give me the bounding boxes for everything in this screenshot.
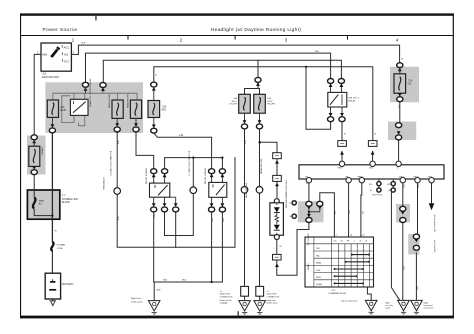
svg-text:Power Source: Power Source bbox=[43, 27, 78, 33]
wire J5 circle up bbox=[192, 158, 194, 188]
relay DRL No.3 top connector a bbox=[209, 169, 215, 174]
ground T1 left rear bbox=[365, 300, 377, 313]
border frame bottom bbox=[20, 316, 454, 319]
svg-text:FLASH: FLASH bbox=[316, 283, 323, 286]
wire coil line bbox=[165, 158, 223, 169]
svg-text:C6: C6 bbox=[289, 216, 291, 218]
junction connector circle B4 LH bbox=[241, 187, 248, 194]
svg-text:GND1: GND1 bbox=[399, 177, 404, 179]
table terminal ticks bbox=[334, 235, 367, 290]
body ECU side circles bbox=[292, 201, 296, 205]
svg-text:18: 18 bbox=[363, 235, 365, 237]
svg-text:W-B: W-B bbox=[156, 289, 161, 291]
wire relay2 out2 bbox=[221, 212, 223, 282]
svg-text:Right: Right bbox=[385, 301, 390, 304]
AM1 connector bottom bbox=[31, 170, 37, 175]
relay DRL No.2 top arrow a bbox=[329, 83, 333, 87]
svg-text:CONNECTOR: CONNECTOR bbox=[266, 296, 279, 298]
wire ground bus drop T1 bbox=[153, 282, 155, 301]
DRL fuse top arrow bbox=[152, 87, 156, 91]
IG fuse bottom arrow bbox=[398, 93, 402, 97]
wire head fuse split bbox=[245, 83, 259, 94]
headlight control relay bbox=[70, 78, 91, 116]
fuse 40A MAIN bbox=[47, 100, 66, 117]
GND2 connector circle a bbox=[413, 234, 419, 239]
wire main battery line bbox=[51, 133, 53, 242]
combination switch table bbox=[305, 237, 374, 287]
wire HEAD to table bbox=[360, 183, 363, 237]
svg-text:LOW: LOW bbox=[316, 270, 321, 272]
svg-text:Right: Right bbox=[424, 301, 429, 304]
wire battery to ground bbox=[52, 299, 54, 301]
relay DRL No.4 top arrow b bbox=[163, 174, 167, 178]
svg-text:HEAD: HEAD bbox=[316, 262, 322, 265]
fuse 10A HI-LP RH bbox=[254, 94, 276, 113]
svg-text:ACC: ACC bbox=[64, 45, 70, 49]
svg-text:GND2: GND2 bbox=[413, 177, 418, 179]
svg-text:instrument: instrument bbox=[424, 304, 433, 307]
head fuses top connector bbox=[255, 77, 261, 82]
inline connector B7 bbox=[273, 254, 282, 260]
diode box top connector bbox=[274, 199, 279, 204]
svg-text:JUNCTION: JUNCTION bbox=[220, 294, 231, 296]
GND1 connector arrow bbox=[401, 211, 405, 215]
terminal DRL bbox=[369, 161, 375, 170]
DRL fuse top connector bbox=[151, 82, 157, 87]
HU gray connector arrow b bbox=[318, 206, 322, 210]
wire ground bus lower bbox=[154, 281, 222, 283]
FR3 arrow to parking brake bbox=[429, 203, 435, 210]
GND2 connector circle b bbox=[413, 245, 419, 250]
connector block gray HU bbox=[298, 201, 324, 222]
inline connector IF2 DRL bbox=[368, 141, 377, 147]
inline connector B7 arrow bbox=[275, 263, 279, 267]
svg-text:B7: B7 bbox=[370, 190, 372, 192]
relay block bottom connector 40A bbox=[49, 128, 55, 133]
relay DRL No.4 top connector b bbox=[162, 169, 168, 174]
fusible link MAIN inside block bbox=[33, 190, 54, 217]
wire J4 down bbox=[117, 158, 235, 248]
relay DRL No.2 bottom arrows bbox=[329, 113, 333, 117]
wire ignition to AM1 bbox=[34, 54, 41, 134]
svg-text:40A: 40A bbox=[60, 106, 65, 109]
relay block top connector b bbox=[100, 83, 106, 88]
svg-text:CONNECTOR: CONNECTOR bbox=[220, 296, 233, 298]
svg-text:TAIL: TAIL bbox=[316, 254, 320, 257]
fuse HEAD RH-UPR bbox=[126, 93, 141, 118]
ECU connector circles bbox=[369, 182, 395, 197]
daytime running light diode resistor bbox=[270, 180, 288, 235]
svg-text:ST1: ST1 bbox=[64, 59, 69, 63]
svg-text:B4: B4 bbox=[389, 190, 391, 192]
relay DRL No.3 bottom connector a bbox=[209, 207, 215, 212]
relay DRL No.2 top connector b bbox=[338, 79, 344, 84]
HU gray connector circle c bbox=[306, 218, 312, 223]
diode box bottom connector bbox=[274, 235, 279, 240]
border frame top bbox=[20, 13, 454, 15]
svg-text:HI-LP: HI-LP bbox=[267, 101, 273, 103]
svg-text:JUNCTION: JUNCTION bbox=[266, 294, 277, 296]
wire head fuse drop bbox=[257, 60, 259, 77]
relay DRL No.2 top arrow b bbox=[340, 83, 344, 87]
svg-text:Right front: Right front bbox=[266, 299, 276, 302]
junction connector circle J5 bbox=[190, 187, 197, 194]
wire relay2 out1 bbox=[211, 212, 213, 282]
inline connector B8 b arrow bbox=[275, 183, 279, 187]
terminal HF bbox=[346, 177, 352, 183]
svg-text:B10: B10 bbox=[369, 184, 372, 186]
wire AM1 fuse to FL block bbox=[33, 175, 35, 190]
svg-text:Right front: Right front bbox=[131, 297, 141, 300]
wire relay1 out2 U loop bbox=[165, 193, 194, 236]
inline connector B8 b bbox=[273, 175, 282, 181]
svg-text:HF: HF bbox=[347, 241, 349, 243]
svg-text:7: 7 bbox=[336, 235, 337, 237]
connector block gray GND2 bbox=[408, 234, 419, 255]
svg-text:IGNITION SW: IGNITION SW bbox=[42, 75, 59, 79]
svg-text:BODY ECU: BODY ECU bbox=[372, 194, 382, 196]
ground T2 bbox=[398, 300, 410, 313]
wire diode branch bbox=[260, 142, 278, 152]
battery ground bbox=[50, 301, 56, 306]
inline connector B8 a bbox=[273, 153, 282, 159]
bus wire line1 IG1 feed bbox=[78, 45, 399, 63]
relay block bottom connector f2 arrow bbox=[134, 123, 138, 127]
head fuse LH bottom arrow bbox=[243, 120, 247, 124]
relay DRL No.4 stubs bbox=[154, 197, 176, 203]
wire jc2 square to triangle bbox=[259, 296, 261, 300]
inline connector IF1 HRLY bbox=[338, 141, 347, 147]
wire HRLY arrow to box bbox=[341, 152, 343, 161]
svg-text:HI-LP: HI-LP bbox=[232, 101, 238, 103]
IG fuse bottom connector bbox=[397, 97, 403, 102]
svg-text:rear side: rear side bbox=[385, 304, 392, 307]
section tick 1-2 bbox=[128, 36, 129, 40]
wire relayblock out J4 bbox=[116, 132, 118, 188]
fuse HEAD LH-UPR bbox=[108, 94, 123, 119]
node coil junction bbox=[221, 157, 223, 159]
svg-text:BLOCK: BLOCK bbox=[62, 201, 71, 204]
AM1 connector top arrow bbox=[32, 140, 36, 144]
wire head RH vertical b bbox=[259, 193, 261, 286]
head fuses top arrow bbox=[256, 82, 260, 86]
wire FR3 down bbox=[431, 183, 433, 203]
svg-text:DRL: DRL bbox=[162, 110, 167, 112]
connector block gray right bbox=[388, 122, 416, 141]
relay DRL No.4 bbox=[145, 168, 170, 198]
GND1 connector circle b bbox=[400, 218, 406, 223]
terminal HU bbox=[305, 177, 311, 183]
relay DRL No.3 stubs bbox=[212, 197, 223, 203]
svg-text:W-B: W-B bbox=[182, 279, 187, 281]
svg-text:EL: EL bbox=[365, 241, 367, 243]
svg-text:16: 16 bbox=[350, 235, 352, 237]
svg-text:EN2: EN2 bbox=[387, 184, 390, 186]
relay DRL No.4 bottom arrows bbox=[152, 203, 156, 207]
svg-text:HL: HL bbox=[341, 241, 343, 243]
svg-text:BATTERY: BATTERY bbox=[62, 283, 74, 286]
junction connector circle J4 left bbox=[114, 188, 121, 195]
table header labels bbox=[334, 241, 368, 243]
svg-text:RH-UPR: RH-UPR bbox=[267, 104, 275, 106]
relay DRL No.4 bottom connector c bbox=[173, 207, 179, 212]
JC2 ground triangle bbox=[254, 301, 266, 314]
relay block top connector a arrow bbox=[84, 87, 88, 91]
svg-text:J 4 JUNCTION CONNECTOR: J 4 JUNCTION CONNECTOR bbox=[110, 150, 112, 176]
svg-text:1.25B: 1.25B bbox=[57, 248, 63, 250]
relay DRL No.4 top connector a bbox=[151, 169, 157, 174]
border frame right bbox=[453, 13, 454, 318]
relay block top connector a bbox=[82, 82, 88, 87]
relay DRL No.4 top arrow a bbox=[152, 174, 156, 178]
GND1 connector circle a bbox=[400, 206, 406, 211]
wire diode mid2 bbox=[276, 182, 278, 198]
svg-text:ALT: ALT bbox=[39, 203, 44, 206]
wire GND2 down2 bbox=[415, 253, 417, 301]
section tick 2-3 bbox=[235, 36, 236, 40]
table contact bars bbox=[334, 255, 370, 284]
fuse 7.5A IG bbox=[394, 74, 413, 93]
AM1 connector bottom arrow bbox=[32, 166, 36, 170]
wire HF to table bbox=[348, 183, 350, 237]
header separator line bbox=[20, 35, 453, 36]
relay DRL No.3 top arrow b bbox=[221, 174, 225, 178]
relay DRL No.4 bottom connector a bbox=[151, 207, 157, 212]
DRL main relay box bbox=[299, 165, 444, 179]
HU gray connector circle a bbox=[306, 201, 312, 206]
svg-text:HIGH: HIGH bbox=[316, 277, 321, 279]
svg-text:AM1: AM1 bbox=[42, 53, 48, 57]
svg-text:fender apron: fender apron bbox=[266, 303, 277, 305]
svg-text:FL MAIN: FL MAIN bbox=[57, 244, 66, 247]
relay block bottom connector f1 arrow bbox=[115, 123, 119, 127]
HU gray connector arrow a bbox=[307, 206, 311, 210]
wire DRL2 bottom left bbox=[306, 67, 331, 130]
svg-text:headlight: headlight bbox=[220, 302, 229, 305]
IG fuse top connector bbox=[397, 63, 403, 68]
ground T3 bbox=[411, 300, 423, 313]
terminal HRLY bbox=[338, 161, 345, 170]
bus wire line4 DRL feed bbox=[154, 67, 373, 141]
wire HU branch to table bbox=[320, 193, 335, 237]
svg-text:R-W: R-W bbox=[245, 140, 247, 144]
svg-text:panel: panel bbox=[385, 308, 390, 310]
svg-text:W-B: W-B bbox=[163, 279, 168, 281]
battery bbox=[45, 273, 74, 299]
relay DRL No.3 bbox=[204, 168, 227, 198]
fuse 10A HI-LP LH bbox=[229, 94, 250, 113]
terminal HEAD bbox=[358, 176, 365, 183]
wire FL to battery bbox=[51, 251, 53, 273]
border frame left bbox=[20, 13, 21, 318]
svg-text:C5: C5 bbox=[289, 203, 291, 205]
inline connector IF1 arrow bbox=[340, 151, 344, 155]
wire head LH vertical bbox=[244, 129, 246, 187]
fuse 7.5A DRL bbox=[148, 101, 167, 118]
terminal G bbox=[396, 161, 401, 170]
component stub wires bbox=[34, 69, 400, 234]
svg-text:L: L bbox=[307, 183, 309, 184]
wire diode to HU net bbox=[277, 223, 309, 276]
wire connector to G bbox=[398, 140, 400, 161]
section tick 3-4 bbox=[347, 36, 348, 40]
connector block gray GND1 bbox=[396, 204, 410, 223]
terminal GND2 bbox=[413, 177, 420, 183]
svg-text:FR3: FR3 bbox=[428, 177, 432, 179]
node line4 T bbox=[305, 66, 307, 68]
wire relay1 out1 bbox=[153, 212, 155, 282]
engine room relay block gray bbox=[45, 82, 143, 133]
wire HU connector up bbox=[308, 183, 310, 202]
right connector pair arrow bbox=[397, 131, 401, 135]
bus wire line3 bbox=[103, 60, 341, 82]
svg-text:I 15: I 15 bbox=[42, 72, 47, 76]
svg-text:LH-UPR: LH-UPR bbox=[229, 104, 237, 106]
head fuse LH bottom connector bbox=[241, 124, 247, 129]
svg-text:J 5 JUNCTION CONNECTOR: J 5 JUNCTION CONNECTOR bbox=[189, 150, 191, 176]
junction connector square JC1 bbox=[241, 286, 249, 296]
svg-text:B-R: B-R bbox=[82, 43, 86, 45]
fusible link FL MAIN bbox=[51, 231, 65, 251]
bus wire line2 bbox=[86, 53, 331, 82]
relay DRL No.3 bottom connector b bbox=[219, 207, 225, 212]
svg-text:MAIN: MAIN bbox=[39, 200, 45, 203]
wire head RH vertical bbox=[259, 129, 261, 187]
ground T1 right front fender bbox=[148, 301, 160, 314]
svg-text:Headlight (w/ Daytime Running: Headlight (w/ Daytime Running Light) bbox=[211, 27, 301, 33]
relay block bottom connector f2 bbox=[133, 127, 139, 132]
wire diode mid1 bbox=[276, 159, 278, 175]
AM1 fuse block gray bbox=[27, 136, 46, 175]
svg-text:DRL NO. 2: DRL NO. 2 bbox=[348, 98, 359, 100]
DRL fuse bottom connector bbox=[151, 128, 157, 133]
ignition switch I15 bbox=[37, 43, 74, 71]
AM1 connector top bbox=[31, 135, 37, 140]
svg-text:Left rear side panel: Left rear side panel bbox=[341, 299, 358, 302]
relay DRL No.3 top arrow a bbox=[210, 174, 214, 178]
relay DRL No.4 bottom connector b bbox=[161, 207, 167, 212]
svg-text:IG1: IG1 bbox=[64, 53, 69, 57]
head fuse RH bottom connector bbox=[256, 124, 262, 129]
GND2 connector arrow bbox=[415, 239, 419, 243]
HU gray connector arrow c bbox=[307, 214, 311, 218]
HU gray connector circle b bbox=[317, 201, 323, 206]
wire diode bottom bbox=[276, 239, 278, 254]
relay DRL No.2 top connector a bbox=[328, 79, 334, 84]
junction connector circle B5 RH bbox=[256, 187, 263, 194]
wire table exit to T1 bbox=[367, 287, 371, 300]
relay block bottom connector 40A arrow bbox=[51, 124, 55, 128]
DRL fuse bottom arrow bbox=[152, 125, 156, 129]
HU junction node bbox=[309, 206, 320, 217]
border tick top bbox=[95, 16, 96, 21]
relay block top connector b arrow bbox=[101, 87, 105, 91]
wire ignition to line1 bbox=[71, 53, 78, 55]
right connector pair top bbox=[396, 123, 402, 128]
IG fuse top arrow bbox=[398, 68, 402, 72]
wire DRL fuse LW line bbox=[154, 133, 212, 169]
wire GND1 down2 bbox=[402, 222, 404, 300]
relay DRL No.3 bottom arrows bbox=[210, 203, 214, 207]
svg-text:7.5A: 7.5A bbox=[162, 106, 167, 109]
wire GND1 down bbox=[402, 183, 404, 206]
svg-text:7.5A: 7.5A bbox=[408, 80, 413, 83]
junction connector square JC2 bbox=[256, 286, 264, 296]
svg-text:RELAY: RELAY bbox=[348, 100, 356, 103]
svg-text:DRL: DRL bbox=[369, 168, 373, 170]
wire DRL2 bottom right bbox=[341, 122, 343, 141]
table row labels bbox=[316, 248, 323, 286]
svg-text:MAIN: MAIN bbox=[60, 109, 66, 112]
wire head LH vertical b bbox=[244, 193, 246, 286]
node T diode branch bbox=[258, 141, 260, 143]
terminal GND1 bbox=[399, 177, 406, 183]
wire coil relay2 bbox=[221, 158, 223, 169]
relay DRL No.3 top connector b bbox=[219, 169, 225, 174]
svg-text:HRLY: HRLY bbox=[338, 168, 344, 170]
inline connector B8 a arrow bbox=[275, 160, 279, 164]
JC1 ground triangle bbox=[239, 301, 251, 314]
svg-text:COMBINATION SW: COMBINATION SW bbox=[328, 292, 346, 295]
fusible link block box bbox=[27, 190, 59, 219]
wire fuse2 to relay1 bbox=[136, 132, 154, 169]
svg-text:HEAD: HEAD bbox=[358, 176, 364, 179]
relay DRL No.2 bottom connector b bbox=[339, 117, 345, 122]
wire ECU to ground bbox=[391, 193, 399, 301]
wire head fuse split b bbox=[258, 89, 260, 95]
fuse AM1 bbox=[29, 146, 44, 166]
wire DRL arrow to box bbox=[372, 152, 374, 161]
svg-text:R-B: R-B bbox=[315, 51, 319, 53]
svg-text:fender apron: fender apron bbox=[131, 300, 144, 303]
border tick bottom bbox=[238, 311, 239, 315]
wire jc1 square to triangle bbox=[244, 296, 246, 300]
wire GND2 down bbox=[417, 183, 419, 234]
inline connector IF2 arrow bbox=[371, 151, 375, 155]
node ground bus junction bbox=[211, 281, 213, 283]
right connector pair bottom bbox=[396, 135, 402, 140]
svg-text:(SHIELDED) B: (SHIELDED) B bbox=[104, 177, 106, 190]
wire IG fuse down bbox=[399, 102, 401, 123]
ignition fuse gray (7.5A IG) bbox=[390, 67, 419, 103]
node J5 junction bbox=[192, 157, 194, 159]
svg-text:panel brace: panel brace bbox=[424, 307, 434, 310]
head fuse RH bottom arrow bbox=[258, 120, 262, 124]
relay DRL No.2 bbox=[328, 87, 360, 113]
terminal FR3 bbox=[428, 177, 434, 183]
svg-text:T: T bbox=[354, 241, 355, 243]
relay DRL No.2 bottom connector a bbox=[328, 117, 334, 122]
relay block inner wiring bbox=[53, 88, 137, 126]
svg-text:Under the left: Under the left bbox=[220, 299, 232, 302]
wire relay1 out3 bbox=[175, 212, 177, 247]
relay block bottom connector f1 bbox=[114, 127, 120, 132]
